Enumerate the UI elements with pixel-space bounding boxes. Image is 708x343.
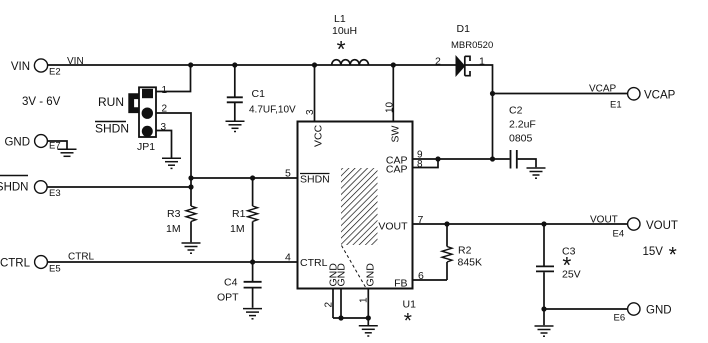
jumper JP1: [131, 87, 156, 153]
wire JP1 pin2 down to SHDN net: [156, 113, 191, 187]
svg-text:VIN: VIN: [11, 61, 30, 73]
wire CAP pin9: [413, 158, 493, 160]
svg-text:*: *: [337, 36, 346, 62]
svg-text:SHDN: SHDN: [300, 174, 330, 186]
node SHDN/R1: [250, 175, 255, 180]
capacitor C2: [493, 105, 537, 169]
svg-text:VCC: VCC: [313, 124, 325, 147]
terminal E1 VCAP: [610, 88, 676, 111]
terminal E4 VOUT: [613, 218, 678, 240]
svg-text:RUN: RUN: [98, 95, 124, 109]
svg-text:25V: 25V: [562, 269, 581, 281]
svg-text:4: 4: [285, 252, 291, 264]
svg-text:1: 1: [162, 85, 168, 96]
svg-text:D1: D1: [457, 23, 471, 35]
svg-text:E6: E6: [614, 313, 626, 324]
svg-text:E5: E5: [49, 264, 61, 275]
capacitor C3: [536, 224, 581, 325]
node GND/C3: [541, 306, 546, 311]
svg-text:2: 2: [324, 302, 335, 308]
ground C4: [243, 309, 262, 319]
svg-text:5: 5: [285, 168, 291, 180]
node VIN/VCC: [312, 62, 317, 67]
IC U1: [298, 122, 413, 290]
terminal E7 GND: [4, 135, 60, 152]
thermal pad hatch U1: [341, 168, 378, 245]
resistor R1: [230, 178, 258, 262]
terminal E5 CTRL: [0, 256, 61, 275]
wire CAP pin8: [413, 159, 439, 168]
svg-text:R1: R1: [232, 208, 246, 220]
ground U1: [359, 326, 378, 336]
terminal E2 VIN: [11, 59, 61, 78]
node VIN/SW: [391, 62, 396, 67]
svg-text:3V - 6V: 3V - 6V: [22, 96, 61, 108]
node CTRL/C4: [250, 259, 255, 264]
svg-text:CAP: CAP: [386, 164, 408, 176]
svg-text:10: 10: [385, 101, 396, 113]
svg-text:845K: 845K: [458, 257, 483, 269]
svg-text:*: *: [404, 309, 412, 332]
terminal E3 SHDN: [0, 176, 61, 200]
svg-text:MBR0520: MBR0520: [451, 40, 493, 51]
wire VCC pin3: [314, 65, 316, 122]
node E3/R3: [188, 184, 193, 189]
svg-text:VCAP: VCAP: [589, 84, 617, 95]
ground JP1 pin3: [162, 158, 181, 168]
svg-text:C1: C1: [252, 88, 266, 100]
wire SHDN E3: [47, 186, 191, 188]
svg-text:E4: E4: [613, 229, 625, 240]
label SHDN (jumper): [95, 122, 129, 136]
svg-text:GND: GND: [365, 263, 377, 287]
ground C3: [535, 326, 554, 336]
svg-text:7: 7: [418, 214, 424, 226]
svg-text:2: 2: [435, 56, 441, 68]
svg-text:*: *: [669, 244, 677, 267]
wires U1 GND pins: [333, 289, 368, 326]
svg-text:SW: SW: [390, 125, 402, 142]
resistor R2: [442, 224, 482, 280]
svg-text:E1: E1: [610, 100, 622, 111]
wire GND E6: [544, 308, 628, 310]
node VCAP tap: [490, 91, 495, 96]
wire VCAP: [493, 93, 628, 95]
svg-text:6: 6: [418, 270, 424, 282]
node U1 gnd a: [338, 315, 343, 320]
svg-text:2.2uF: 2.2uF: [509, 119, 536, 131]
node SHDN pin5: [188, 175, 193, 180]
svg-text:3: 3: [305, 109, 316, 115]
svg-text:E2: E2: [49, 67, 61, 78]
wire E7 to ground: [48, 141, 68, 149]
inductor L1: [332, 13, 369, 65]
svg-text:VOUT: VOUT: [646, 220, 678, 232]
svg-text:1: 1: [359, 297, 370, 303]
svg-text:CTRL: CTRL: [68, 252, 95, 263]
svg-text:VCAP: VCAP: [644, 90, 676, 102]
node U1 gnd b: [366, 315, 371, 320]
node VOUT/R2: [444, 221, 449, 226]
wire SW pin10: [392, 65, 394, 122]
svg-text:C2: C2: [509, 105, 523, 117]
svg-text:15V: 15V: [643, 246, 664, 258]
svg-text:SHDN: SHDN: [0, 182, 29, 194]
wire FB pin6: [413, 279, 448, 281]
node VIN/JP1: [188, 62, 193, 67]
svg-text:VOUT: VOUT: [590, 215, 618, 226]
ground E7: [58, 149, 77, 156]
wire CTRL: [48, 261, 298, 263]
svg-text:GND: GND: [336, 263, 348, 287]
ground C1: [226, 121, 245, 131]
wire VIN main: [48, 64, 457, 66]
svg-text:GND: GND: [646, 305, 672, 317]
svg-text:JP1: JP1: [137, 141, 155, 153]
terminal E6 GND: [614, 303, 672, 324]
dashed line pad to GND: [342, 246, 367, 289]
svg-text:OPT: OPT: [217, 292, 239, 304]
wire pin5 SHDN to chip: [191, 177, 298, 179]
wire D1 cathode down: [465, 65, 493, 159]
svg-text:C4: C4: [224, 277, 238, 289]
ground R3: [182, 243, 201, 253]
resistor R3: [166, 187, 196, 242]
svg-text:R3: R3: [167, 208, 181, 220]
svg-text:8: 8: [417, 159, 423, 170]
node CAP/C2: [490, 156, 495, 161]
svg-text:VOUT: VOUT: [378, 221, 408, 233]
svg-text:1M: 1M: [230, 223, 245, 235]
svg-text:E3: E3: [49, 188, 61, 199]
ground C2: [527, 168, 546, 178]
svg-text:VIN: VIN: [67, 56, 84, 67]
node VIN/C1: [232, 62, 237, 67]
node VOUT/C3: [541, 221, 546, 226]
wire VOUT pin7: [413, 223, 628, 225]
wire JP1 pin1 to VIN: [156, 65, 191, 92]
capacitor C4: [217, 262, 262, 308]
svg-text:1M: 1M: [166, 223, 181, 235]
svg-text:4.7UF,10V: 4.7UF,10V: [249, 105, 296, 116]
svg-text:GND: GND: [4, 137, 30, 149]
svg-text:0805: 0805: [509, 133, 533, 145]
svg-text:SHDN: SHDN: [95, 122, 129, 136]
svg-text:R2: R2: [458, 245, 472, 257]
svg-text:L1: L1: [334, 13, 346, 25]
capacitor C1: [227, 65, 296, 121]
diode D1 MBR0520: [451, 23, 493, 76]
svg-text:FB: FB: [394, 278, 407, 290]
node CAP pins: [435, 156, 440, 161]
svg-text:CTRL: CTRL: [300, 257, 328, 269]
svg-text:CTRL: CTRL: [0, 258, 31, 270]
wire JP1 pin3: [156, 131, 172, 158]
